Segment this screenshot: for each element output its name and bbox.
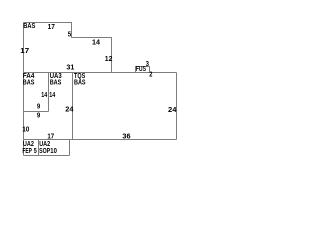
svg-text:9: 9 — [37, 112, 40, 119]
svg-text:3: 3 — [146, 61, 149, 68]
svg-text:17: 17 — [48, 24, 55, 31]
svg-text:14: 14 — [92, 40, 100, 47]
svg-text:FEP: FEP — [22, 148, 32, 155]
svg-text:14: 14 — [41, 92, 47, 99]
svg-text:17: 17 — [20, 48, 29, 55]
svg-text:5: 5 — [68, 31, 71, 38]
svg-text:FUS: FUS — [136, 66, 146, 73]
svg-text:5: 5 — [34, 148, 37, 155]
svg-text:10: 10 — [50, 148, 57, 155]
svg-text:24: 24 — [168, 107, 177, 114]
svg-text:10: 10 — [22, 127, 29, 134]
svg-text:BAS: BAS — [23, 23, 35, 30]
svg-text:2: 2 — [149, 72, 152, 79]
svg-text:BAS: BAS — [50, 79, 62, 86]
svg-text:9: 9 — [37, 104, 40, 111]
svg-text:31: 31 — [66, 65, 74, 72]
svg-text:17: 17 — [47, 133, 54, 140]
svg-text:14: 14 — [49, 92, 55, 99]
svg-text:BAS: BAS — [23, 79, 35, 86]
svg-text:36: 36 — [122, 134, 130, 141]
svg-text:12: 12 — [105, 56, 113, 63]
svg-text:BAS: BAS — [74, 79, 86, 86]
svg-text:24: 24 — [65, 106, 73, 113]
svg-text:SOP: SOP — [39, 148, 50, 155]
